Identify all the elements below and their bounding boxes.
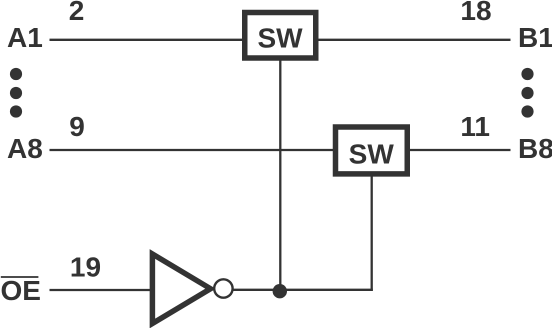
inverter U1 output bubble bbox=[214, 279, 232, 297]
wire OE to inverter bbox=[50, 289, 152, 291]
svg-text:19: 19 bbox=[70, 251, 101, 282]
svg-text:SW: SW bbox=[349, 138, 395, 169]
ellipsis dots right bbox=[521, 68, 533, 118]
wire SW2 to B8 bbox=[408, 149, 511, 151]
port label OE (with overline) bbox=[1, 275, 41, 306]
wire SW1 to B1 bbox=[317, 39, 511, 41]
switch SW1 bbox=[245, 13, 316, 59]
svg-text:B8: B8 bbox=[518, 133, 552, 164]
svg-text:OE: OE bbox=[1, 275, 41, 306]
ellipsis dots left bbox=[10, 68, 22, 118]
svg-text:18: 18 bbox=[460, 0, 491, 26]
wire A8 to SW2 bbox=[50, 149, 336, 151]
svg-text:11: 11 bbox=[460, 111, 490, 142]
svg-text:A1: A1 bbox=[7, 22, 43, 53]
switch SW2 bbox=[336, 127, 408, 174]
wire branch up to SW2 bbox=[371, 175, 373, 291]
svg-text:B1: B1 bbox=[518, 22, 552, 53]
svg-text:2: 2 bbox=[69, 0, 85, 26]
junction dot bbox=[273, 284, 287, 298]
inverter U1 triangle bbox=[152, 254, 210, 324]
wire inverter output to SW2 branch bbox=[233, 289, 373, 291]
svg-text:A8: A8 bbox=[7, 133, 43, 164]
svg-text:SW: SW bbox=[257, 23, 303, 54]
wire A1 to SW1 bbox=[50, 39, 245, 41]
svg-text:9: 9 bbox=[69, 111, 85, 142]
wire branch up to SW1 bbox=[279, 59, 281, 290]
